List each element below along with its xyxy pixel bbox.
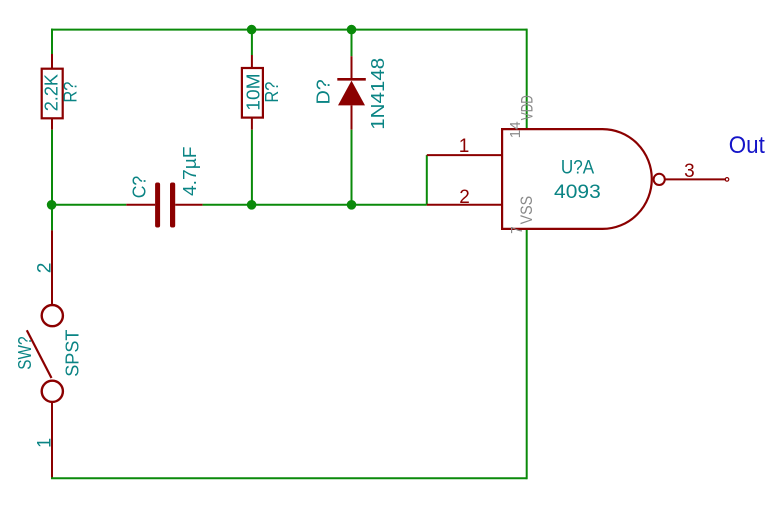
wire R2 column upper bbox=[251, 30, 253, 55]
diode D1 value 1N4148 bbox=[368, 58, 388, 130]
diode D1 bbox=[337, 56, 366, 130]
NAND gate U1A pin 1 number bbox=[459, 136, 470, 157]
wire VDD column bbox=[526, 29, 528, 129]
svg-text:R?: R? bbox=[61, 82, 81, 103]
svg-text:7: 7 bbox=[509, 226, 526, 234]
capacitor C1 refdes C? bbox=[130, 176, 150, 199]
NAND gate U1A pin 1 bbox=[427, 154, 503, 156]
wire VSS column bbox=[526, 229, 528, 479]
switch SW1 value SPST bbox=[63, 329, 83, 376]
wire row middle segment bbox=[203, 204, 427, 206]
wire row left segment bbox=[52, 204, 127, 206]
svg-text:SW?: SW? bbox=[15, 337, 35, 370]
capacitor C1 value 4.7uF bbox=[180, 146, 200, 196]
svg-text:U?A: U?A bbox=[561, 158, 595, 179]
capacitor C1 bbox=[126, 183, 202, 228]
diode D1 refdes D? bbox=[313, 79, 333, 104]
wire bottom horizontal net bbox=[51, 477, 527, 479]
resistor R2 bbox=[242, 55, 263, 130]
svg-text:4.7µF: 4.7µF bbox=[180, 146, 200, 196]
NAND gate U1A value 4093 bbox=[554, 181, 601, 203]
junction row below R2 bbox=[247, 200, 257, 210]
svg-text:2: 2 bbox=[34, 263, 55, 274]
wire R2 column lower bbox=[251, 130, 253, 205]
NAND gate U1A pin 2 bbox=[427, 204, 503, 206]
wire diode column upper bbox=[351, 30, 353, 57]
junction top of D1 bbox=[347, 25, 357, 35]
NAND gate U1A hidden pin 14 number bbox=[507, 121, 524, 138]
svg-text:4093: 4093 bbox=[554, 181, 601, 203]
resistor R2 value 10M bbox=[243, 73, 263, 110]
NAND gate U1A pin 3 bbox=[665, 178, 728, 182]
wire left column upper bbox=[51, 29, 53, 54]
NAND gate U1A pin 2 number bbox=[459, 187, 470, 208]
svg-text:D?: D? bbox=[313, 79, 333, 104]
NAND gate U1A output bubble bbox=[654, 174, 665, 185]
NAND gate U1A refdes U?A bbox=[561, 158, 595, 179]
resistor R2 refdes R? bbox=[262, 82, 282, 103]
NAND gate U1A hidden pin VDD name bbox=[518, 95, 537, 120]
svg-text:10M: 10M bbox=[243, 73, 263, 110]
svg-text:2.2K: 2.2K bbox=[42, 74, 62, 111]
svg-text:2: 2 bbox=[459, 187, 470, 208]
svg-text:1: 1 bbox=[34, 438, 55, 448]
svg-text:3: 3 bbox=[684, 161, 695, 182]
wire left column mid bbox=[51, 130, 53, 205]
wire top horizontal net bbox=[51, 29, 527, 31]
wire left column to switch bbox=[51, 205, 53, 231]
svg-text:VSS: VSS bbox=[517, 196, 536, 225]
wire input stub vertical bbox=[426, 155, 428, 205]
svg-text:C?: C? bbox=[130, 176, 150, 199]
switch SW1 pin number 2 bbox=[34, 263, 55, 274]
switch SW1 pin number 1 bbox=[34, 438, 55, 448]
svg-text:14: 14 bbox=[507, 121, 524, 138]
resistor R1 refdes R? bbox=[61, 82, 81, 103]
resistor R1 bbox=[42, 54, 63, 130]
switch SW1 SPST bbox=[27, 230, 63, 478]
resistor R1 value 2.2K bbox=[42, 74, 62, 111]
junction left row node bbox=[47, 200, 57, 210]
switch SW1 refdes SW? bbox=[15, 337, 35, 370]
NAND gate U1A hidden pin VSS name bbox=[517, 196, 536, 225]
svg-text:R?: R? bbox=[262, 82, 282, 103]
junction top of R2 bbox=[247, 25, 257, 35]
NAND gate U1A body bbox=[502, 129, 652, 229]
svg-text:Out: Out bbox=[729, 132, 765, 159]
svg-text:VDD: VDD bbox=[518, 95, 537, 120]
svg-text:1: 1 bbox=[459, 136, 470, 157]
junction row below D1 bbox=[347, 200, 357, 210]
wire diode column lower bbox=[351, 130, 353, 205]
svg-text:1N4148: 1N4148 bbox=[368, 58, 388, 130]
svg-text:SPST: SPST bbox=[63, 329, 83, 376]
NAND gate U1A pin 3 number bbox=[684, 161, 695, 182]
NAND gate U1A hidden pin 7 number bbox=[509, 226, 526, 234]
node Out label bbox=[729, 132, 765, 159]
